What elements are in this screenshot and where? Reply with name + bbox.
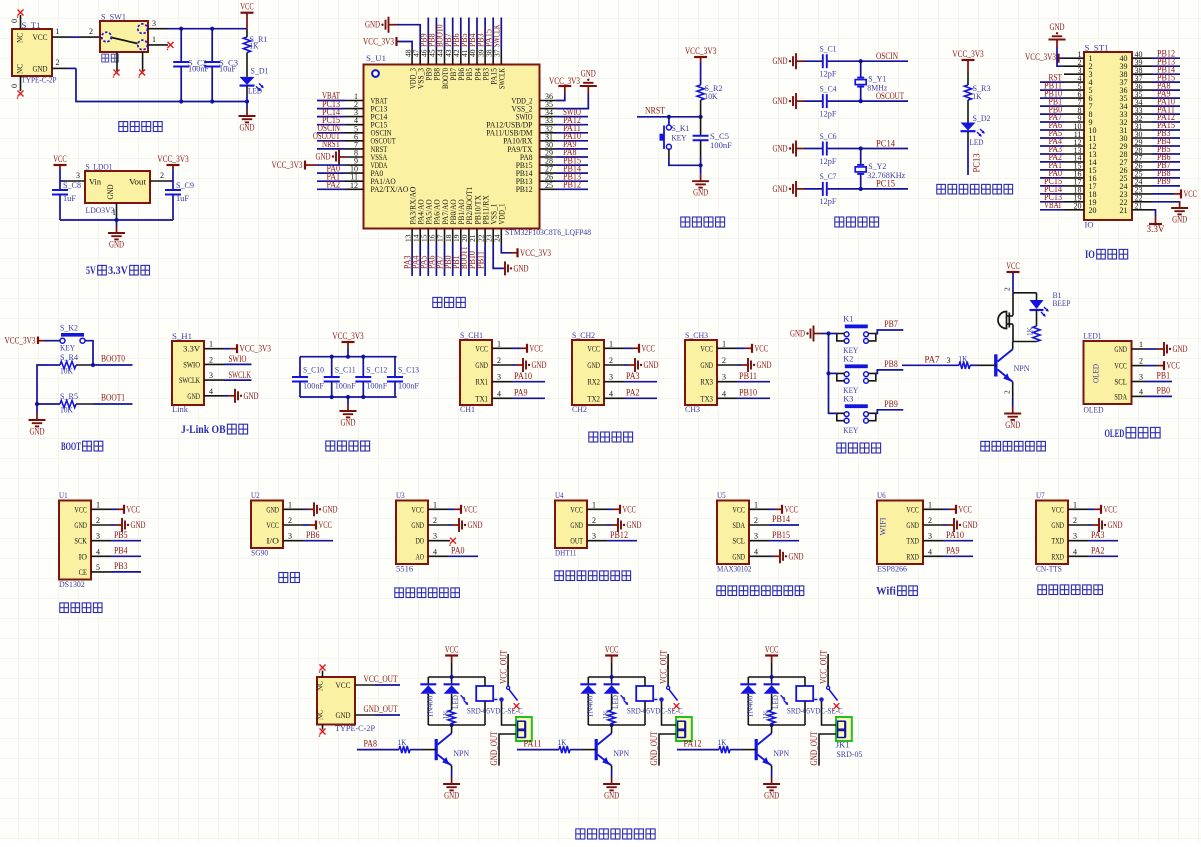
pin 3 PC14 xyxy=(317,107,388,122)
svg-text:1K: 1K xyxy=(558,737,568,747)
pin 26 PB13 xyxy=(516,171,588,186)
svg-text:1uF: 1uF xyxy=(176,193,189,203)
svg-text:BOOT0: BOOT0 xyxy=(101,354,125,364)
transistor NPN xyxy=(756,725,789,766)
title 串口电路 xyxy=(589,432,598,442)
svg-text:100nF: 100nF xyxy=(188,64,209,74)
svg-text:S_K2: S_K2 xyxy=(60,323,78,333)
svg-text:1: 1 xyxy=(288,500,292,509)
svg-text:VCC_3V3: VCC_3V3 xyxy=(272,160,303,170)
svg-text:5: 5 xyxy=(96,563,100,572)
svg-text:VCC: VCC xyxy=(530,343,544,353)
svg-text:2: 2 xyxy=(433,516,437,525)
svg-text:BEEP: BEEP xyxy=(1053,298,1071,308)
net label PC13 xyxy=(967,140,969,175)
svg-text:4: 4 xyxy=(96,547,100,556)
pin 14 PA4/AO xyxy=(410,199,425,276)
svg-text:IO: IO xyxy=(79,551,87,561)
pin 20 left xyxy=(1040,200,1097,215)
pin 22 right xyxy=(1120,194,1153,207)
pin 24 right xyxy=(1120,176,1181,191)
svg-text:PB9: PB9 xyxy=(884,399,898,409)
svg-text:PB12: PB12 xyxy=(610,530,628,540)
svg-text:10K: 10K xyxy=(705,91,719,101)
svg-text:PA2: PA2 xyxy=(1091,546,1105,556)
svg-text:1: 1 xyxy=(433,500,437,509)
base resistor 1K xyxy=(357,737,436,753)
svg-text:VCC_3V3: VCC_3V3 xyxy=(952,49,984,59)
svg-text:VCC: VCC xyxy=(587,343,600,353)
wire bottom node xyxy=(1013,341,1037,343)
display LED1 OLED xyxy=(1084,331,1132,415)
svg-text:100nF: 100nF xyxy=(335,381,356,391)
pin 4 RXD xyxy=(1051,546,1118,562)
svg-text:NC: NC xyxy=(15,33,25,43)
pin 4 TX2 xyxy=(587,388,657,404)
svg-text:VCC_3V3: VCC_3V3 xyxy=(332,331,364,341)
title 声光报警电路 xyxy=(981,441,990,451)
svg-text:GND: GND xyxy=(644,360,659,370)
pin 2 PC13 xyxy=(317,99,387,114)
svg-text:1N4007: 1N4007 xyxy=(744,692,754,718)
wire terminal to GND_OUT xyxy=(489,731,516,765)
svg-text:PB8: PB8 xyxy=(884,359,898,369)
svg-text:GND: GND xyxy=(693,188,708,198)
pin 6 OSCOUT xyxy=(313,131,396,146)
svg-text:BOOT1: BOOT1 xyxy=(101,393,125,403)
pin 31 right xyxy=(1120,120,1181,135)
pin 26 right xyxy=(1120,160,1181,175)
ground flag xyxy=(773,53,805,69)
svg-text:S_R4: S_R4 xyxy=(60,352,79,362)
svg-text:VCC_3V3: VCC_3V3 xyxy=(5,336,36,346)
capacitor S_C2 100nF xyxy=(173,29,209,102)
title 程序运行指示灯 xyxy=(937,184,946,194)
svg-text:100nF: 100nF xyxy=(366,381,387,391)
pin 3 SCK xyxy=(74,530,141,546)
svg-text:1: 1 xyxy=(592,500,596,509)
net label PB9 xyxy=(876,399,904,414)
base resistor 1K xyxy=(902,353,996,369)
pin 5 CE xyxy=(79,561,141,577)
svg-text:VCC: VCC xyxy=(959,504,973,514)
svg-text:GND: GND xyxy=(532,360,547,370)
svg-text:2: 2 xyxy=(288,516,292,525)
pin 15 left xyxy=(1040,160,1097,175)
pin 2 GND xyxy=(74,516,145,532)
svg-text:VCC: VCC xyxy=(1104,504,1118,514)
svg-text:GND: GND xyxy=(105,185,115,200)
pin 41 PB5 xyxy=(459,18,474,81)
stub pin1 right no-connect xyxy=(148,44,168,46)
svg-text:DO: DO xyxy=(416,536,424,546)
svg-text:3: 3 xyxy=(1073,532,1077,541)
no-connect flag xyxy=(18,91,24,97)
svg-text:1: 1 xyxy=(722,339,726,348)
pushbutton K2 KEY xyxy=(837,353,876,395)
svg-text:2: 2 xyxy=(56,58,60,67)
svg-text:GND: GND xyxy=(475,360,488,370)
resistor S_R2 10K xyxy=(697,83,723,117)
pin 8 left xyxy=(1040,104,1093,119)
base resistor 1K xyxy=(677,737,756,753)
svg-text:VCC_3V3: VCC_3V3 xyxy=(549,76,580,86)
svg-text:GND_OUT: GND_OUT xyxy=(489,731,499,765)
svg-text:GND: GND xyxy=(700,360,713,370)
capacitor S_C7 12pF xyxy=(804,171,861,206)
ground GND xyxy=(36,404,38,413)
svg-text:VCC: VCC xyxy=(605,645,619,655)
svg-text:20: 20 xyxy=(1089,206,1097,215)
pin 3 TXD xyxy=(906,530,973,546)
pin 1 VCC xyxy=(906,500,972,514)
svg-text:S_C4: S_C4 xyxy=(820,83,838,93)
svg-text:100nF: 100nF xyxy=(710,140,732,150)
svg-text:2: 2 xyxy=(928,516,932,525)
svg-text:PB10: PB10 xyxy=(739,388,757,398)
capacitor S_C10 100nF xyxy=(292,357,324,397)
regulator S_LDO1 LDO3V3 xyxy=(85,162,150,216)
net label BOOT1 xyxy=(93,393,133,405)
svg-text:S_CH3: S_CH3 xyxy=(685,330,708,340)
svg-text:PC13: PC13 xyxy=(972,153,982,172)
svg-text:12pF: 12pF xyxy=(820,69,837,79)
svg-text:LED: LED xyxy=(450,695,460,709)
resistor 1K vertical xyxy=(1025,310,1041,342)
module U1 DS1302 xyxy=(59,490,91,589)
svg-text:1: 1 xyxy=(609,339,613,348)
svg-text:KEY: KEY xyxy=(672,132,687,142)
svg-text:CE: CE xyxy=(79,567,87,577)
VCC_3V3 flag pin24 bottom xyxy=(501,244,551,258)
svg-text:GND_OUT: GND_OUT xyxy=(649,731,659,765)
label 开关 xyxy=(102,54,109,62)
svg-text:BOOT: BOOT xyxy=(61,439,81,453)
resistor 1K xyxy=(601,710,616,725)
svg-text:U1: U1 xyxy=(59,490,68,500)
svg-text:12pF: 12pF xyxy=(820,156,837,166)
connector S_CH2 xyxy=(572,330,604,414)
VCC_3V3 flag xyxy=(967,60,969,65)
ground flag xyxy=(773,141,805,157)
VCC_3V3 flag pin1 xyxy=(1025,52,1064,63)
wire xyxy=(829,412,837,414)
svg-text:PB12: PB12 xyxy=(563,180,581,190)
pin 27 PB14 xyxy=(516,163,588,178)
svg-text:2: 2 xyxy=(1003,287,1012,291)
connector S_CH1 xyxy=(460,330,492,414)
pin 1 VCC xyxy=(587,339,655,353)
svg-text:3: 3 xyxy=(609,373,613,382)
svg-text:4: 4 xyxy=(497,389,501,398)
svg-text:4: 4 xyxy=(722,389,726,398)
svg-text:NPN: NPN xyxy=(773,748,789,758)
pin stub bottom S_T1 xyxy=(20,76,22,91)
svg-text:IO: IO xyxy=(1085,247,1095,261)
pin 7 left xyxy=(1040,96,1093,111)
svg-text:GND: GND xyxy=(757,360,772,370)
svg-text:PB1: PB1 xyxy=(1157,371,1171,381)
svg-text:2: 2 xyxy=(1003,390,1012,394)
svg-text:GND: GND xyxy=(789,551,804,561)
title 语音播报模块 xyxy=(1038,585,1047,595)
pin 1 VCC xyxy=(411,500,477,514)
resistor S_R3 1K xyxy=(964,83,990,123)
no-connect stubs xyxy=(322,671,324,678)
pin 42 PB6 xyxy=(451,18,466,81)
svg-text:VCC: VCC xyxy=(127,504,141,514)
pin 28 right xyxy=(1120,144,1181,159)
pin 1 GND xyxy=(266,500,337,516)
pin 3 DO xyxy=(416,532,456,546)
ground flag pin8 xyxy=(316,148,346,164)
svg-text:GND: GND xyxy=(773,56,788,66)
svg-text:S_C10: S_C10 xyxy=(303,365,324,375)
svg-text:LED: LED xyxy=(770,695,780,709)
svg-text:0: 0 xyxy=(10,19,19,23)
svg-text:SG90: SG90 xyxy=(251,548,268,558)
pin 21 PB10/TX xyxy=(467,195,482,276)
svg-text:VCC: VCC xyxy=(411,504,424,514)
ground flag pin22 xyxy=(1152,201,1188,225)
emitter wire + ground xyxy=(443,766,460,801)
svg-text:GND: GND xyxy=(323,504,338,514)
pin 3 RX3 xyxy=(700,371,770,387)
svg-text:PB6: PB6 xyxy=(306,530,320,540)
pin 1 VCC xyxy=(74,500,140,514)
pin 17 left xyxy=(1040,176,1097,191)
svg-text:24: 24 xyxy=(493,234,502,242)
pin 28 PB15 xyxy=(516,155,588,170)
svg-text:PB0: PB0 xyxy=(1157,386,1171,396)
svg-text:GND: GND xyxy=(240,123,255,133)
svg-text:PB11: PB11 xyxy=(739,371,757,381)
pin 31 PA10/RX xyxy=(503,131,588,146)
wire top rail xyxy=(748,676,805,678)
svg-text:LED: LED xyxy=(610,695,620,709)
svg-text:S_T1: S_T1 xyxy=(22,20,41,30)
svg-text:VCC: VCC xyxy=(1184,189,1198,199)
pin 4 IO xyxy=(79,546,141,562)
svg-text:SWCLK: SWCLK xyxy=(497,67,507,89)
svg-text:I/O: I/O xyxy=(266,536,279,546)
svg-text:3: 3 xyxy=(928,532,932,541)
svg-text:12: 12 xyxy=(350,181,358,190)
svg-text:10K: 10K xyxy=(60,366,74,376)
pin 2 GND xyxy=(411,516,482,532)
pin 16 left xyxy=(1040,168,1097,183)
svg-text:VCC: VCC xyxy=(642,343,656,353)
VCC_3V3 flag pin36 xyxy=(549,76,580,101)
pin 12 PA2/TX/AO xyxy=(317,180,408,195)
module U3 5516 xyxy=(396,490,428,574)
pin 10 PA0 xyxy=(317,163,383,178)
pin 1 3.3V xyxy=(183,340,271,354)
svg-text:VCC: VCC xyxy=(623,504,637,514)
svg-text:TXD: TXD xyxy=(906,536,919,546)
pin 1 VCC xyxy=(700,339,768,353)
svg-text:3.3V: 3.3V xyxy=(108,263,128,277)
pin 15 PA5/AO xyxy=(419,199,434,276)
svg-text:VCC: VCC xyxy=(1006,261,1020,271)
svg-text:4: 4 xyxy=(1073,547,1077,556)
svg-text:PA10: PA10 xyxy=(514,371,532,381)
svg-text:4: 4 xyxy=(609,389,613,398)
svg-text:VCC: VCC xyxy=(1167,361,1181,371)
title 继电器控制电路 xyxy=(576,829,585,839)
pin 36 VDD_2 xyxy=(512,92,557,105)
pin 2 left xyxy=(1064,58,1093,71)
pin 20 PB2/BOOT1 xyxy=(459,187,474,276)
svg-text:S_LDO1: S_LDO1 xyxy=(86,162,113,172)
wire terminal to GND_OUT xyxy=(809,731,836,765)
svg-text:GND: GND xyxy=(336,710,351,720)
capacitor S_C8 1uF xyxy=(52,180,81,220)
pin 39 PB3 xyxy=(475,18,490,81)
pin 3 SWCLK xyxy=(179,370,252,385)
svg-text:NC: NC xyxy=(15,64,25,74)
pin 3 RX1 xyxy=(475,371,545,387)
svg-text:CH3: CH3 xyxy=(685,404,700,414)
svg-text:TX1: TX1 xyxy=(475,393,488,403)
connector S_H1 J-Link xyxy=(172,331,204,414)
transistor Q NPN xyxy=(996,342,1030,382)
pin 32 right xyxy=(1120,112,1181,127)
svg-text:3: 3 xyxy=(152,19,156,28)
pin 4 left xyxy=(1040,72,1093,87)
svg-text:PB3: PB3 xyxy=(114,561,128,571)
ground flag pin47 top xyxy=(365,17,420,50)
svg-text:VCC_OUT: VCC_OUT xyxy=(364,674,398,684)
svg-text:GND_OUT: GND_OUT xyxy=(809,731,819,765)
svg-text:PA2/TX/AO: PA2/TX/AO xyxy=(371,184,409,194)
pin 18 left xyxy=(1040,184,1097,199)
wire top rail xyxy=(428,676,485,678)
svg-text:NPN: NPN xyxy=(453,748,469,758)
svg-text:GND: GND xyxy=(773,184,788,194)
VCC flag relay cell xyxy=(765,645,779,678)
svg-text:1K: 1K xyxy=(761,710,771,720)
svg-text:OLED: OLED xyxy=(1105,426,1125,440)
diode 1N4007 xyxy=(740,677,756,725)
crystal S_Y1 8MHz xyxy=(855,61,887,101)
pin 4 TX3 xyxy=(700,388,770,404)
svg-text:S_C7: S_C7 xyxy=(820,171,837,181)
svg-text:OSCIN: OSCIN xyxy=(876,51,898,61)
svg-text:NRST: NRST xyxy=(322,139,340,149)
wire key bus xyxy=(829,334,837,414)
svg-text:3: 3 xyxy=(722,373,726,382)
svg-text:1: 1 xyxy=(1073,500,1077,509)
svg-text:VCC: VCC xyxy=(475,343,488,353)
transistor NPN xyxy=(436,725,469,766)
svg-text:VCC: VCC xyxy=(700,343,713,353)
pin 45 PB8 xyxy=(427,18,442,81)
svg-text:4: 4 xyxy=(928,547,932,556)
svg-text:S_D1: S_D1 xyxy=(251,66,269,76)
svg-text:1K: 1K xyxy=(601,710,611,720)
title 舵机 xyxy=(279,573,288,583)
title 复位电路 xyxy=(681,217,690,227)
svg-text:1: 1 xyxy=(56,27,60,36)
svg-text:0: 0 xyxy=(10,84,19,88)
svg-text:1K: 1K xyxy=(973,91,983,101)
net label PB8 xyxy=(876,359,904,374)
svg-text:K2: K2 xyxy=(843,353,853,363)
svg-text:3: 3 xyxy=(754,532,758,541)
capacitor S_C1 12pF xyxy=(804,44,861,79)
svg-text:3: 3 xyxy=(288,532,292,541)
title 电源电路 xyxy=(119,122,128,132)
capacitor S_C13 100nF xyxy=(387,357,419,397)
svg-text:20: 20 xyxy=(1074,202,1082,211)
svg-text:S_C12: S_C12 xyxy=(366,365,387,375)
pin 29 right xyxy=(1120,136,1181,151)
svg-text:1N4007: 1N4007 xyxy=(584,692,594,718)
VCC_3V3 flag pin48 top xyxy=(363,37,412,50)
svg-text:DHT11: DHT11 xyxy=(555,548,577,558)
pushbutton S_K1 KEY xyxy=(660,117,701,166)
svg-text:PB12: PB12 xyxy=(516,184,533,194)
svg-text:SWCLK: SWCLK xyxy=(492,24,502,47)
svg-text:GND: GND xyxy=(365,20,380,30)
svg-text:GND: GND xyxy=(266,504,279,514)
terminal green connector xyxy=(836,717,852,741)
svg-text:SWIO: SWIO xyxy=(229,354,247,364)
svg-text:TYPE-C-2P: TYPE-C-2P xyxy=(335,723,375,733)
svg-text:PC14: PC14 xyxy=(876,138,895,148)
pin 36 right xyxy=(1120,80,1181,95)
svg-text:VCC: VCC xyxy=(240,2,254,12)
svg-text:VCC: VCC xyxy=(445,645,459,655)
svg-text:NPN: NPN xyxy=(1014,363,1030,373)
title 心率血氧检测模块 xyxy=(717,586,726,596)
pin 2 GND xyxy=(587,356,658,372)
svg-text:SCL: SCL xyxy=(732,536,745,546)
pushbutton K3 KEY xyxy=(837,393,876,435)
ground flag xyxy=(773,93,805,109)
pin 1 VCC xyxy=(475,339,543,353)
svg-text:OLED: OLED xyxy=(1091,364,1101,383)
svg-text:MAX30102: MAX30102 xyxy=(717,564,751,574)
svg-text:GND: GND xyxy=(244,391,259,401)
module U4 DHT11 xyxy=(555,490,587,558)
svg-text:GND: GND xyxy=(444,791,459,801)
VCC_3V3 flag xyxy=(5,336,61,346)
pin 10 left xyxy=(1040,120,1097,135)
pin 1 VCC xyxy=(1051,500,1117,514)
svg-text:VCC: VCC xyxy=(33,32,48,42)
svg-text:1K: 1K xyxy=(250,41,260,51)
svg-text:RXD: RXD xyxy=(906,551,919,561)
title 滤波电路 xyxy=(326,441,335,451)
pin 19 PB1/AO xyxy=(451,199,466,276)
capacitor S_C9 1uF xyxy=(165,180,194,220)
svg-text:1: 1 xyxy=(497,339,501,348)
svg-text:CH1: CH1 xyxy=(460,404,475,414)
svg-text:GND: GND xyxy=(963,520,978,530)
pin 4 TX1 xyxy=(475,388,545,404)
pin 1 VCC xyxy=(570,500,636,514)
pin 5 OSCIN xyxy=(317,123,392,138)
svg-text:VCC_3V3: VCC_3V3 xyxy=(240,344,272,354)
svg-text:1: 1 xyxy=(152,35,156,44)
wire S_T1 VCC to switch xyxy=(52,36,70,38)
svg-text:S_U1: S_U1 xyxy=(366,53,386,63)
pin 23 VSS_1 xyxy=(484,204,498,245)
crystal S_Y2 32.768KHz xyxy=(855,149,905,189)
resistor S_R1 1K xyxy=(243,29,267,77)
